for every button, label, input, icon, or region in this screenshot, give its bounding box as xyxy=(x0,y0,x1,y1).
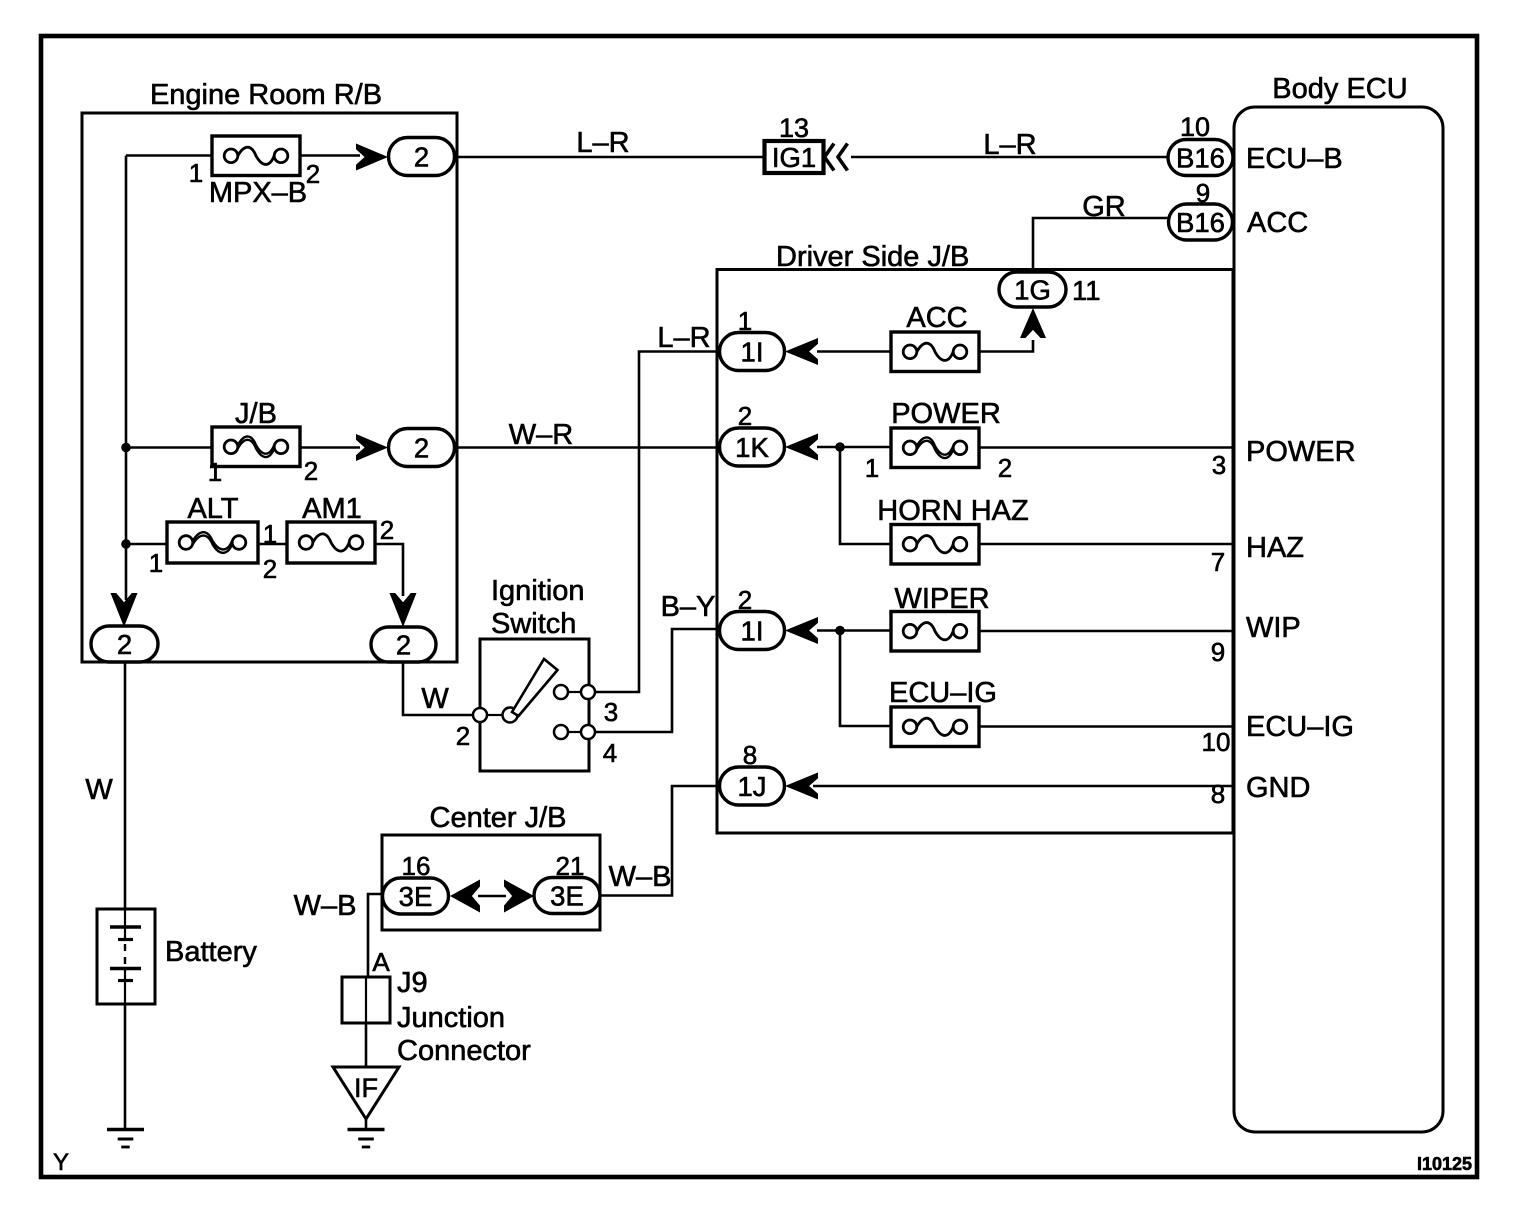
wire 1I to WIPER fuse xyxy=(817,629,892,632)
svg-text:Battery: Battery xyxy=(165,936,257,968)
ground (battery) xyxy=(107,1130,144,1148)
svg-text:W–R: W–R xyxy=(509,419,573,451)
junction dot WIPER row xyxy=(835,626,845,636)
fuse POWER xyxy=(891,428,979,468)
svg-text:2: 2 xyxy=(414,432,429,463)
svg-text:IF: IF xyxy=(354,1073,378,1103)
svg-text:2: 2 xyxy=(380,515,394,545)
connector oval 1K xyxy=(720,428,785,466)
left vertical bus wire xyxy=(125,156,128,601)
svg-text:1G: 1G xyxy=(1014,274,1051,305)
Engine Room R/B box xyxy=(82,79,457,662)
svg-text:L–R: L–R xyxy=(657,322,710,354)
Driver Side J/B box xyxy=(717,241,1233,833)
svg-text:MPX–B: MPX–B xyxy=(209,177,307,209)
fuse WIPER xyxy=(891,612,979,652)
connector oval B16 (ECU-B) xyxy=(1168,140,1233,176)
svg-text:9: 9 xyxy=(1211,637,1225,667)
connector oval 3E (16) xyxy=(383,878,449,914)
svg-text:1I: 1I xyxy=(741,615,764,646)
up arrow into 1G xyxy=(1020,308,1046,338)
fuse AM1 xyxy=(287,522,375,563)
wire battery to ground xyxy=(124,1004,127,1128)
down arrow into connector 2 (right) xyxy=(390,593,417,627)
svg-text:W: W xyxy=(85,774,113,806)
wire junction down to ECU-IG fuse xyxy=(840,631,892,727)
wire ECU-IG fuse to ECU pin10 xyxy=(978,727,1235,758)
svg-text:3E: 3E xyxy=(399,881,433,912)
wire MPX-B pin1 to left bus xyxy=(126,154,213,157)
fuse ALT xyxy=(167,522,258,563)
arrow out of 1I wiper xyxy=(785,617,818,644)
svg-text:1: 1 xyxy=(865,453,879,483)
svg-text:4: 4 xyxy=(603,738,617,768)
svg-text:1: 1 xyxy=(263,519,277,549)
svg-text:7: 7 xyxy=(1211,547,1225,577)
svg-text:2: 2 xyxy=(998,453,1012,483)
wire IF to ground xyxy=(365,1119,368,1128)
svg-text:ACC: ACC xyxy=(1247,207,1308,239)
svg-text:3: 3 xyxy=(604,697,618,727)
wire bus to ALT xyxy=(126,543,168,546)
svg-text:2: 2 xyxy=(456,721,470,751)
ground triangle IF xyxy=(333,1067,399,1119)
double arrows between 3E connectors xyxy=(450,880,534,913)
wire MPX-B pin2 to connector xyxy=(300,154,360,157)
junction dot POWER row xyxy=(835,442,845,452)
label J/B pins xyxy=(208,456,318,487)
wire 1K to POWER fuse xyxy=(817,446,892,449)
connector oval 2 (J/B row) xyxy=(389,429,455,467)
svg-text:L–R: L–R xyxy=(983,129,1036,161)
wire L-R to IG1 xyxy=(454,127,764,159)
wire AM1 pin2 down to connector xyxy=(375,544,403,596)
svg-text:2: 2 xyxy=(414,141,429,172)
svg-text:ECU–IG: ECU–IG xyxy=(889,677,997,709)
wire HORN HAZ fuse to ECU pin7 xyxy=(978,544,1235,577)
svg-text:2: 2 xyxy=(396,629,411,660)
junction connector J9 xyxy=(342,977,390,1023)
fuse J/B xyxy=(212,427,300,467)
wire W-B from 3E(21) to 1J xyxy=(600,786,722,896)
wire ACC fuse to 1G xyxy=(978,340,1033,352)
wire W-B from 3E(16) to J9 and ground xyxy=(294,890,383,977)
svg-text:W–B: W–B xyxy=(609,861,672,893)
wire 1I to ACC fuse xyxy=(817,350,892,353)
svg-text:GND: GND xyxy=(1246,772,1310,804)
connector oval 1I (row ACC) xyxy=(720,333,785,371)
junction dot (bus / J-B row) xyxy=(121,443,131,453)
svg-text:10: 10 xyxy=(1202,727,1231,757)
label MPX-B pins xyxy=(189,158,320,189)
label J9 Junction Connector xyxy=(397,967,531,1067)
svg-text:2: 2 xyxy=(117,629,132,660)
fuse ECU-IG xyxy=(891,707,979,747)
ECU pin labels xyxy=(1246,143,1356,804)
svg-text:1J: 1J xyxy=(737,771,766,802)
svg-text:1: 1 xyxy=(208,457,222,487)
svg-text:1: 1 xyxy=(189,158,203,188)
svg-text:Driver Side J/B: Driver Side J/B xyxy=(776,241,969,273)
connector IG1 xyxy=(765,141,824,173)
svg-text:2: 2 xyxy=(304,456,318,486)
connector oval 1J xyxy=(720,767,785,805)
svg-text:1: 1 xyxy=(149,548,163,578)
connector oval B16 (ACC) xyxy=(1169,204,1233,240)
labels 16 / 21 xyxy=(402,851,585,881)
wire J/B pin2 to connector xyxy=(300,446,360,449)
arrow out of 1I xyxy=(785,338,818,365)
labels ignition pins xyxy=(456,697,618,768)
labels between ALT and AM1 xyxy=(263,519,277,584)
svg-text:B16: B16 xyxy=(1176,142,1225,173)
svg-text:2: 2 xyxy=(263,554,277,584)
svg-text:POWER: POWER xyxy=(1246,436,1356,468)
fuse ACC xyxy=(891,332,979,372)
labels POWER fuse pins xyxy=(865,453,1012,483)
svg-text:Switch: Switch xyxy=(491,608,576,640)
connector oval 1I (row WIPER) xyxy=(720,612,785,650)
wire WIPER fuse to ECU pin9 xyxy=(978,631,1235,667)
fuse MPX-B xyxy=(212,136,300,176)
wire bus to J/B fuse xyxy=(126,446,213,449)
arrow into connector 2 (MPX row) xyxy=(356,144,388,171)
ignition switch xyxy=(473,575,595,771)
svg-text:HORN HAZ: HORN HAZ xyxy=(877,495,1028,527)
svg-text:13: 13 xyxy=(779,113,809,143)
Center J/B box xyxy=(382,802,600,930)
svg-text:J/B: J/B xyxy=(235,398,277,430)
arrow out of 1K xyxy=(785,434,818,461)
wire ignition pin3 up to 1I (L-R) xyxy=(595,322,722,692)
svg-text:1K: 1K xyxy=(735,432,769,463)
wire J9 to IF triangle xyxy=(365,1023,368,1068)
svg-text:J9: J9 xyxy=(397,967,428,999)
svg-text:B16: B16 xyxy=(1176,207,1225,238)
wire 1J to ECU pin8 xyxy=(813,779,1235,809)
arrow into connector 2 (J/B row) xyxy=(356,434,388,461)
wire ALT to AM1 xyxy=(258,543,288,546)
svg-text:Ignition: Ignition xyxy=(491,575,585,607)
svg-text:10: 10 xyxy=(1180,112,1210,142)
down arrow into connector 2 (left) xyxy=(111,593,138,627)
junction dot (bus / ALT row) xyxy=(121,539,131,549)
svg-text:Y: Y xyxy=(53,1149,69,1176)
svg-text:Body ECU: Body ECU xyxy=(1272,73,1407,105)
svg-text:W–B: W–B xyxy=(294,890,357,922)
svg-text:ECU–B: ECU–B xyxy=(1246,143,1343,175)
svg-text:Junction: Junction xyxy=(397,1002,505,1034)
connector oval 2 (bottom right) xyxy=(371,627,436,662)
fuse HORN HAZ xyxy=(891,525,979,565)
wire W-R to driver side J/B xyxy=(454,419,722,451)
wire ignition pin4 to 1I (B-Y) xyxy=(595,591,722,732)
connector oval 3E (21) xyxy=(534,878,600,914)
connector oval 2 (MPX row) xyxy=(389,138,455,176)
svg-text:8: 8 xyxy=(1211,779,1225,809)
svg-text:3: 3 xyxy=(1212,450,1226,480)
svg-text:Center J/B: Center J/B xyxy=(430,802,567,834)
Body ECU box xyxy=(1234,73,1443,1132)
wire W to ignition switch pin2 xyxy=(403,662,473,715)
svg-text:Engine Room R/B: Engine Room R/B xyxy=(150,79,382,111)
svg-text:ACC: ACC xyxy=(906,302,967,334)
svg-text:A: A xyxy=(372,947,390,977)
svg-text:11: 11 xyxy=(1072,275,1101,306)
chevrons after IG1 xyxy=(825,144,848,171)
svg-text:ECU–IG: ECU–IG xyxy=(1246,711,1354,743)
svg-text:L–R: L–R xyxy=(576,127,629,159)
svg-text:2: 2 xyxy=(306,159,320,189)
ground (IF) xyxy=(348,1130,385,1148)
svg-text:Connector: Connector xyxy=(397,1035,531,1067)
wire junction down to HORN HAZ fuse xyxy=(840,447,892,544)
wire POWER fuse to ECU pin3 xyxy=(978,448,1235,481)
svg-text:WIP: WIP xyxy=(1246,612,1301,644)
svg-text:HAZ: HAZ xyxy=(1246,532,1304,564)
svg-text:1I: 1I xyxy=(741,336,764,367)
svg-text:GR: GR xyxy=(1082,191,1126,223)
svg-text:IG1: IG1 xyxy=(772,142,816,173)
svg-text:AM1: AM1 xyxy=(302,493,362,525)
svg-text:POWER: POWER xyxy=(891,398,1001,430)
battery xyxy=(97,909,155,1004)
wire W oval to battery xyxy=(85,662,125,909)
svg-text:W: W xyxy=(421,683,449,715)
connector oval 1G xyxy=(999,272,1066,307)
svg-text:3E: 3E xyxy=(550,880,584,911)
svg-text:B–Y: B–Y xyxy=(661,591,716,623)
svg-text:I10125: I10125 xyxy=(1417,1154,1472,1174)
wire L-R IG1 to B16 xyxy=(851,129,1169,161)
svg-text:ALT: ALT xyxy=(187,493,238,525)
arrow out of 1J xyxy=(785,773,818,800)
connector oval 2 (bottom left) xyxy=(91,626,158,662)
wire GR from 1G to B16 ACC xyxy=(1033,191,1172,273)
